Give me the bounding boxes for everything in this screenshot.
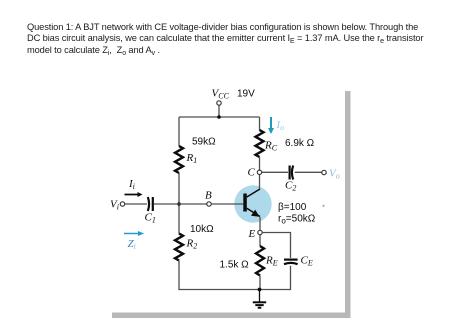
svg-text:R1: R1 bbox=[186, 152, 198, 165]
wire RC top lead bbox=[259, 117, 261, 130]
transistor highlight circle bbox=[234, 185, 271, 222]
wire top rail bbox=[179, 116, 260, 118]
capacitor C1 bbox=[148, 197, 149, 211]
svg-text:C1: C1 bbox=[145, 212, 156, 225]
frame bottom bar bbox=[112, 313, 351, 319]
wire R1 to R2 (left branch mid) bbox=[178, 173, 180, 234]
svg-text:B: B bbox=[205, 190, 212, 202]
wire B to base bbox=[211, 203, 243, 205]
resistor RC bbox=[256, 130, 264, 157]
resistor R1 bbox=[175, 146, 183, 173]
wire emitter to E bbox=[259, 217, 261, 246]
capacitor CE bbox=[284, 259, 298, 261]
junction ground node bbox=[258, 288, 262, 292]
wire RC to collector bbox=[259, 157, 261, 189]
svg-text:E: E bbox=[248, 228, 256, 240]
wire C to C2 bbox=[262, 171, 288, 173]
node E terminal circle bbox=[258, 230, 262, 234]
svg-text:Zi: Zi bbox=[128, 238, 136, 251]
svg-text:10kΩ: 10kΩ bbox=[190, 224, 214, 235]
junction input node bbox=[177, 202, 181, 206]
svg-text:C: C bbox=[248, 167, 256, 179]
wire RE bottom lead bbox=[259, 276, 261, 290]
wire CE to bottom rail bbox=[260, 266, 291, 290]
wire Vi to C1 bbox=[125, 203, 147, 205]
svg-text:ro=50kΩ: ro=50kΩ bbox=[278, 214, 316, 226]
capacitor C2 bbox=[289, 166, 291, 180]
svg-text:Vi: Vi bbox=[110, 199, 119, 212]
Vo terminal circle bbox=[322, 170, 326, 174]
wire R1 top lead bbox=[178, 117, 180, 146]
svg-text:59kΩ: 59kΩ bbox=[192, 137, 216, 148]
Vcc terminal circle bbox=[217, 101, 221, 105]
wire E to CE branch bbox=[262, 233, 290, 259]
wire Vcc drop bbox=[218, 105, 220, 117]
ground bbox=[253, 290, 266, 308]
svg-text:Ii: Ii bbox=[128, 178, 135, 191]
question title text bbox=[27, 22, 461, 57]
wire C2 to Vo bbox=[295, 171, 322, 173]
svg-text:19V: 19V bbox=[237, 89, 255, 100]
resistor R2 bbox=[175, 234, 183, 261]
node C terminal circle bbox=[257, 170, 261, 174]
svg-text:Io: Io bbox=[276, 119, 285, 132]
svg-text:β=100: β=100 bbox=[278, 202, 307, 213]
svg-text:1.5k Ω: 1.5k Ω bbox=[220, 260, 250, 271]
svg-text:RC: RC bbox=[264, 140, 278, 153]
svg-text:VCC: VCC bbox=[212, 88, 230, 101]
node B terminal circle bbox=[207, 202, 211, 206]
svg-text:CE: CE bbox=[301, 255, 313, 268]
stray dot bbox=[323, 205, 325, 207]
arrow Io bbox=[268, 117, 274, 134]
svg-text:Vo: Vo bbox=[329, 168, 340, 181]
wire C1 to B bbox=[154, 203, 207, 205]
resistor RE bbox=[256, 246, 264, 275]
wire R2 bottom lead bbox=[179, 261, 260, 290]
Vi terminal circle bbox=[120, 202, 124, 206]
junction Vcc rail bbox=[217, 115, 221, 119]
svg-text:C2: C2 bbox=[285, 180, 296, 193]
svg-text:R2: R2 bbox=[186, 238, 198, 251]
transistor Q1 bbox=[243, 189, 260, 217]
arrow Zi bbox=[124, 231, 144, 236]
arrow Ii bbox=[125, 192, 143, 197]
svg-text:6.9k Ω: 6.9k Ω bbox=[285, 138, 315, 149]
svg-text:RE: RE bbox=[265, 255, 278, 268]
frame right bar bbox=[345, 91, 351, 318]
